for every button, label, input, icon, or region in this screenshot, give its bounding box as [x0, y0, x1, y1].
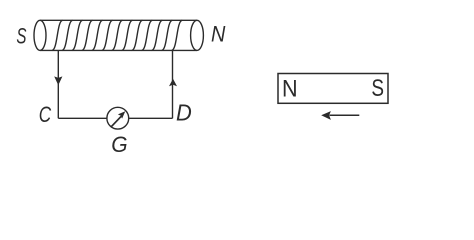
wire bottom horizontal C to D	[58, 117, 172, 119]
solenoid top line	[40, 19, 197, 21]
magnet motion arrow line	[330, 114, 360, 116]
coil turn 4	[82, 20, 93, 50]
magnet motion arrowhead (pointing left)	[321, 111, 331, 120]
wire left vertical C-side	[57, 50, 59, 118]
label N at solenoid right	[211, 21, 226, 46]
coil turn 6	[102, 20, 113, 50]
magnet pole label N	[282, 74, 298, 101]
current arrow up on right wire	[169, 79, 177, 87]
coil turn 2	[62, 20, 73, 50]
coil turn 1	[52, 20, 63, 50]
svg-text:C: C	[39, 103, 52, 128]
svg-text:N: N	[211, 21, 226, 46]
coil turn 5	[92, 20, 103, 50]
label D node	[176, 100, 192, 126]
coil turn 3	[72, 20, 83, 50]
current arrow down on left wire	[54, 76, 62, 85]
wire right vertical D-side	[172, 50, 174, 118]
coil turn 9	[132, 20, 143, 50]
svg-text:S: S	[16, 25, 26, 50]
solenoid left end cap	[34, 20, 46, 50]
svg-text:N: N	[282, 74, 298, 101]
coil turn 12	[162, 20, 173, 50]
galvanometer G circle	[107, 107, 129, 129]
coil turn 13	[172, 20, 183, 50]
svg-text:S: S	[371, 74, 384, 102]
coil turn 10	[142, 20, 153, 50]
coil turn 7	[112, 20, 123, 50]
solenoid bottom line	[40, 49, 197, 51]
solenoid right end cap	[191, 20, 204, 50]
coil turn 11	[152, 20, 163, 50]
label C node	[39, 103, 52, 128]
bar magnet body	[278, 74, 388, 104]
svg-text:D: D	[176, 100, 192, 126]
label G galvanometer	[111, 131, 127, 157]
galvanometer needle arrowhead	[118, 111, 125, 118]
svg-text:G: G	[111, 131, 127, 157]
magnet pole label S	[371, 74, 384, 102]
galvanometer needle	[111, 116, 121, 127]
coil turn 8	[122, 20, 133, 50]
label S at solenoid left	[16, 25, 26, 50]
